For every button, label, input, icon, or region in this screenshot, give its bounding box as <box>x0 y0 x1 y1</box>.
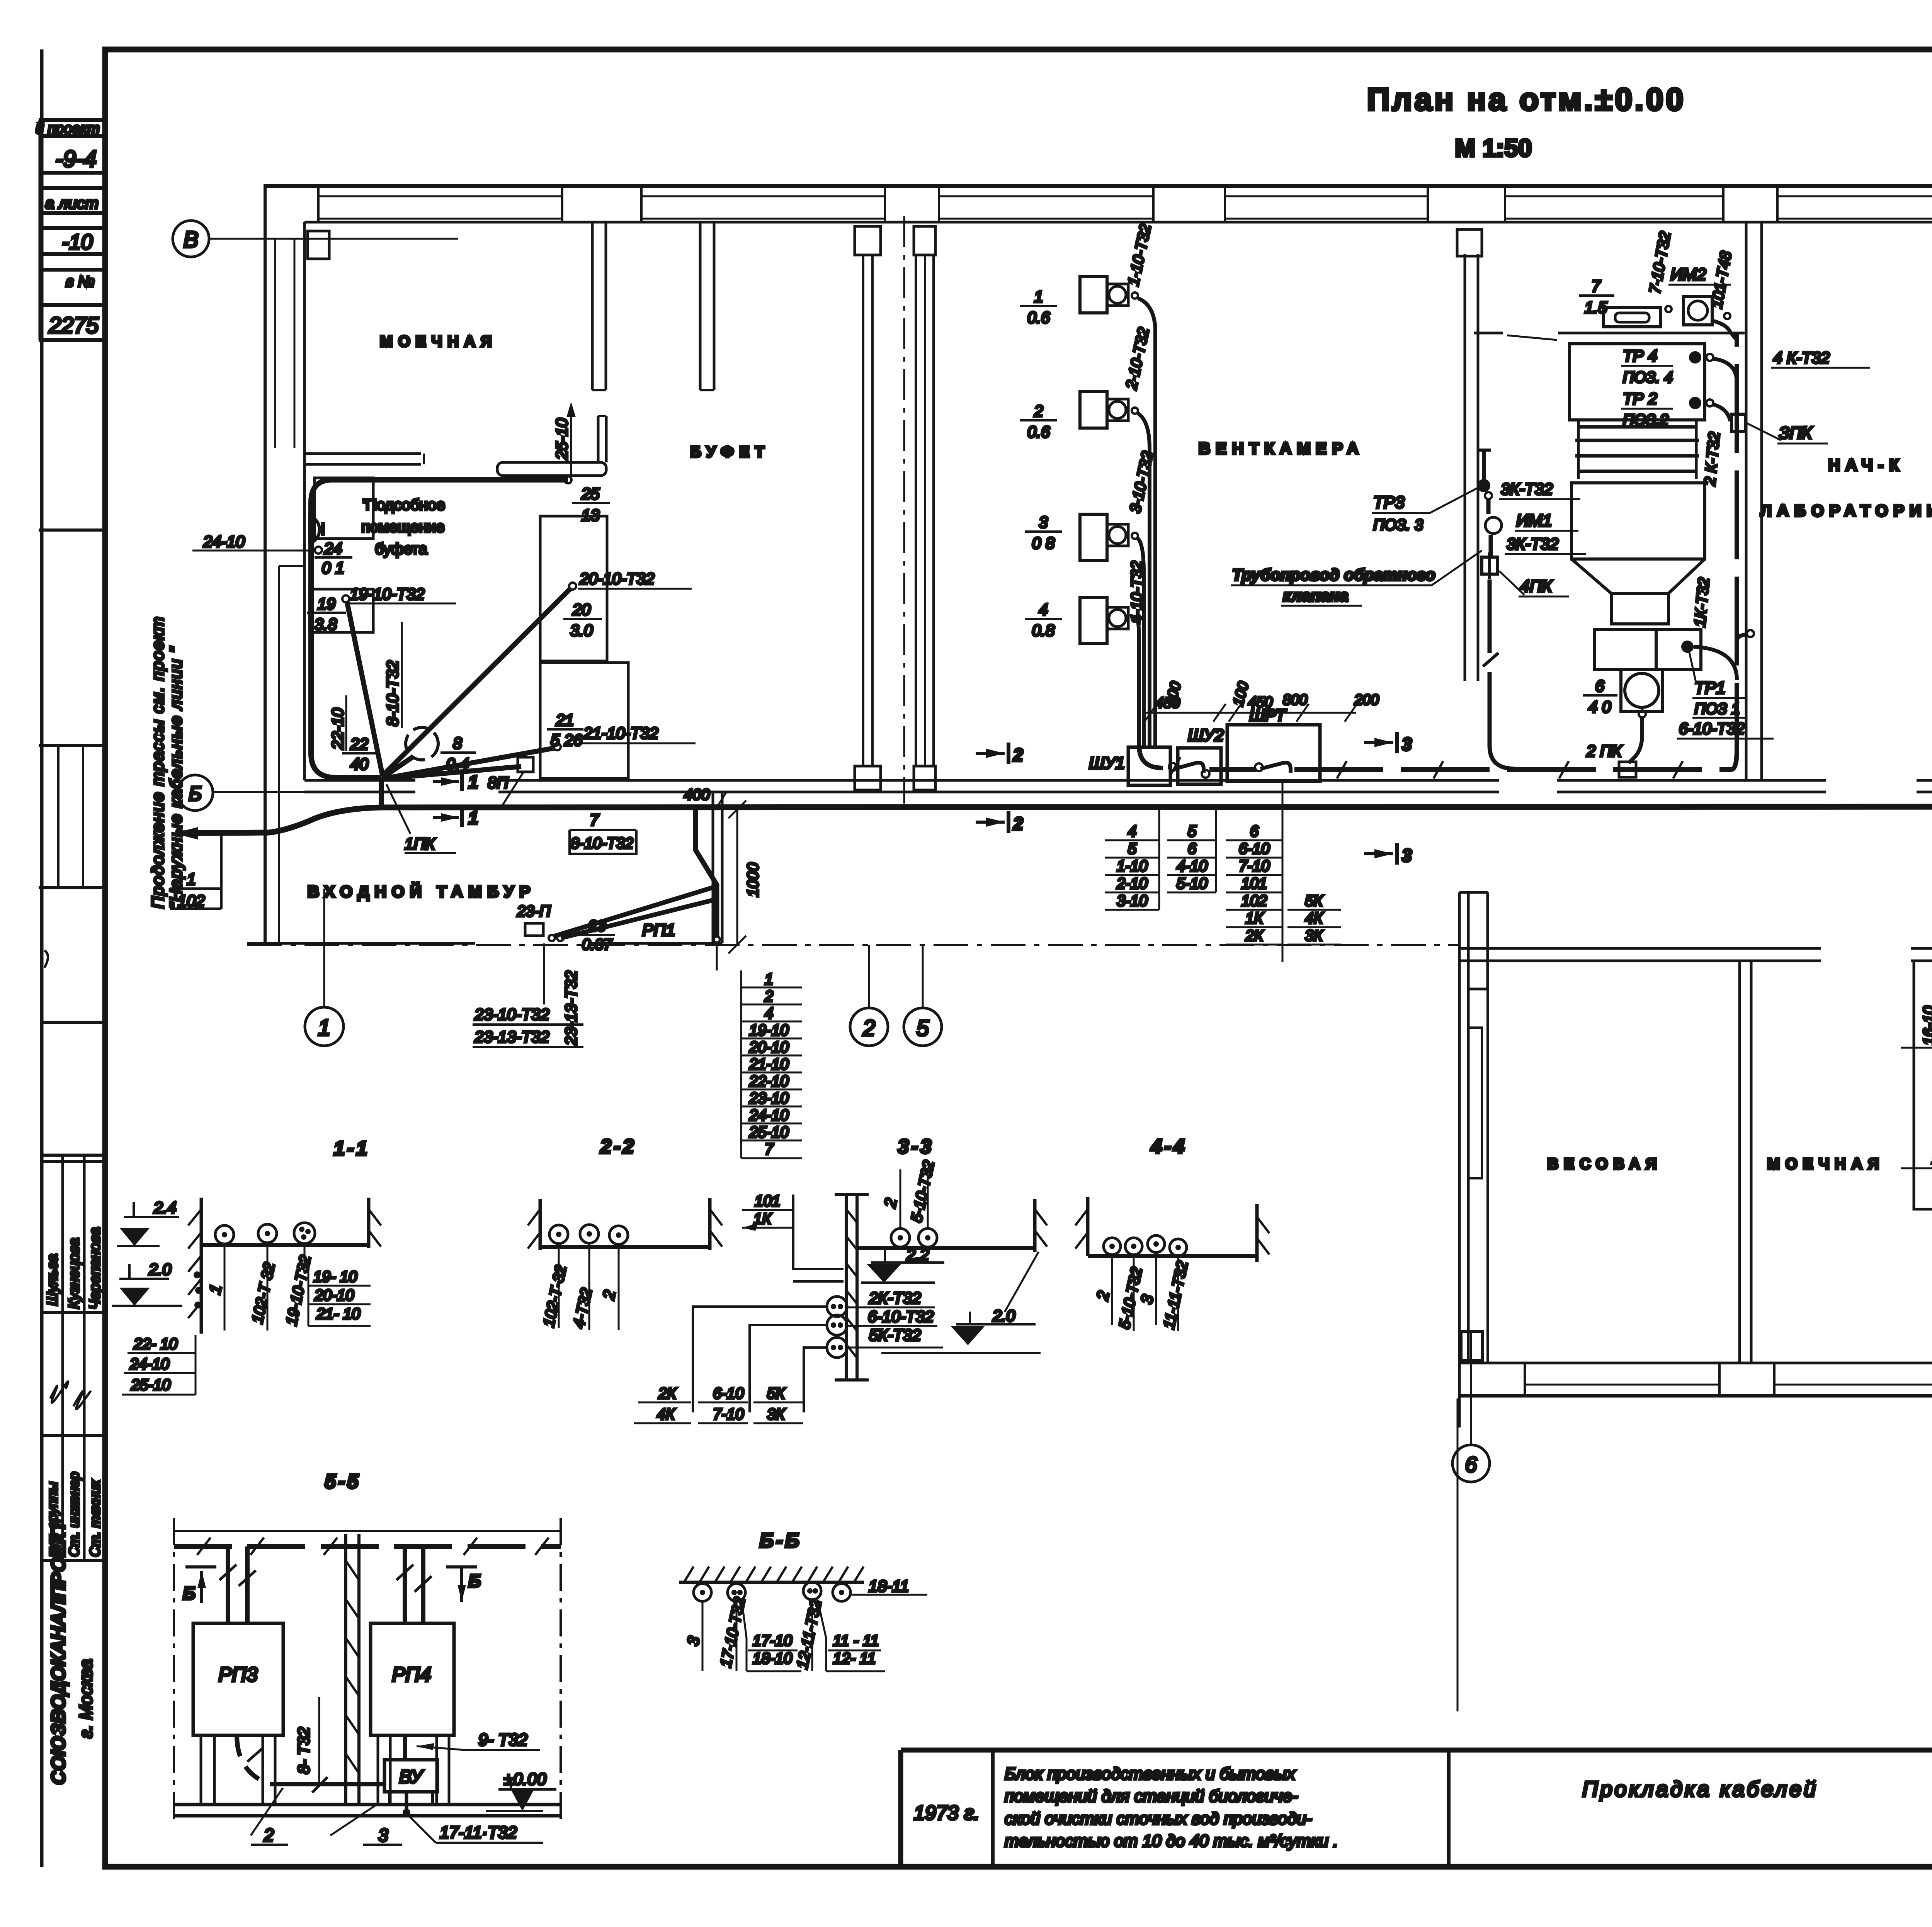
ceiling hatched <box>679 1581 864 1584</box>
svg-text:ИМ1: ИМ1 <box>1516 511 1552 530</box>
svg-text:ТР1: ТР1 <box>1694 678 1726 697</box>
riser circles w/ two dots <box>827 1297 847 1317</box>
svg-text:3-3: 3-3 <box>898 1135 934 1158</box>
svg-text:23: 23 <box>588 918 606 935</box>
svg-text:'Подсобное: 'Подсобное <box>362 496 445 513</box>
svg-text:7-10: 7-10 <box>713 1406 744 1423</box>
1000 dim vertical <box>736 809 738 945</box>
lower block bottom wall <box>1459 1362 1932 1365</box>
cable circles <box>215 1225 234 1244</box>
svg-text:3К: 3К <box>1305 927 1323 944</box>
section mark 1 lower <box>433 816 459 819</box>
tambour bottom wall <box>247 942 475 945</box>
hub to 1ПК and 8П <box>383 756 413 778</box>
svg-text:ВУ: ВУ <box>399 1767 424 1787</box>
ШУ2 cabinet <box>1178 748 1221 784</box>
svg-text:0.6: 0.6 <box>1027 423 1050 441</box>
svg-text:7: 7 <box>765 1141 774 1158</box>
stamp column left <box>36 49 105 1867</box>
svg-text:0 1: 0 1 <box>322 559 344 577</box>
svg-text:3: 3 <box>1402 845 1412 865</box>
svg-text:4: 4 <box>1039 600 1048 619</box>
right riser cable with corner <box>1731 332 1737 770</box>
right wall hatched <box>367 1198 371 1248</box>
svg-text:40: 40 <box>350 755 369 773</box>
svg-text:5-10: 5-10 <box>1177 875 1207 892</box>
svg-text:4К: 4К <box>657 1406 675 1423</box>
node 19 + label <box>342 595 349 602</box>
svg-text:Б: Б <box>189 783 202 805</box>
axis 2 <box>850 1008 888 1046</box>
svg-text:23-10-Т32: 23-10-Т32 <box>474 1005 549 1023</box>
svg-text:23-П: 23-П <box>517 903 551 920</box>
fan unit 3 <box>1080 514 1107 561</box>
svg-text:4-10: 4-10 <box>1177 858 1207 875</box>
svg-text:8-10-Т32: 8-10-Т32 <box>383 661 401 726</box>
fold crease lines <box>1457 1399 1459 1711</box>
ТР3 dot + stem <box>1482 450 1486 483</box>
svg-text:Б: Б <box>183 1583 196 1603</box>
svg-text:5К: 5К <box>1305 892 1323 909</box>
svg-text:102: 102 <box>178 892 205 910</box>
svg-text:Шульга: Шульга <box>44 1254 61 1306</box>
svg-text:23-13-Т32: 23-13-Т32 <box>562 970 580 1046</box>
floor line <box>201 1243 369 1247</box>
svg-text:19-10: 19-10 <box>749 1022 789 1039</box>
п marks on cable <box>1171 757 1683 778</box>
svg-text:5 26: 5 26 <box>551 731 582 749</box>
svg-text:20-10: 20-10 <box>749 1039 789 1056</box>
top wall inner line <box>304 221 1932 224</box>
svg-text:ПОЗ. 4: ПОЗ. 4 <box>1623 369 1673 386</box>
svg-text:ТР3: ТР3 <box>1373 493 1405 512</box>
3К-Т32 node <box>1485 492 1492 499</box>
top wall outer line <box>264 184 1932 188</box>
svg-text:1973 г.: 1973 г. <box>914 1802 980 1824</box>
tables under corridor <box>1116 823 1323 944</box>
damper <box>1604 308 1661 327</box>
svg-text:Продолжение трассы см. прое: Продолжение трассы см. проект <box>148 616 167 909</box>
axis Б <box>177 775 213 811</box>
floor <box>857 1246 1036 1250</box>
fan bottom block <box>1594 629 1656 670</box>
svg-text:3: 3 <box>378 1825 388 1845</box>
svg-text:ской очистки сточных вод п: ской очистки сточных вод производи- <box>1005 1809 1312 1828</box>
svg-text:2: 2 <box>1013 745 1023 765</box>
diagonal cables to РП1 <box>553 887 716 936</box>
bench left <box>1914 961 1932 1209</box>
svg-text:5К: 5К <box>767 1385 786 1402</box>
svg-text:буфета: буфета <box>375 540 427 557</box>
svg-text:20-10: 20-10 <box>314 1287 354 1304</box>
svg-text:1: 1 <box>468 808 478 828</box>
svg-text:0.6: 0.6 <box>1027 308 1050 326</box>
svg-text:25-10: 25-10 <box>131 1376 170 1393</box>
floor <box>174 1803 561 1806</box>
leaders 2, 3, 17-11-Т32 <box>251 1788 283 1835</box>
svg-text:2275: 2275 <box>48 313 99 338</box>
corridor main cable <box>176 807 1932 833</box>
svg-text:18-10: 18-10 <box>753 1650 792 1667</box>
svg-text:СОЮЗВОДОКАНАЛПРОЕКТ: СОЮЗВОДОКАНАЛПРОЕКТ <box>48 1519 69 1785</box>
svg-text:Кузнецова: Кузнецова <box>66 1238 82 1309</box>
svg-text:1: 1 <box>765 971 773 988</box>
svg-text:ПОЗ 1: ПОЗ 1 <box>1694 700 1740 717</box>
svg-text:2 ПК: 2 ПК <box>1586 742 1622 760</box>
lower block left wall <box>1458 892 1461 1427</box>
svg-text:й проект: й проект <box>36 121 100 137</box>
svg-text:6-10: 6-10 <box>1239 840 1270 857</box>
svg-text:МОЕЧНАЯ: МОЕЧНАЯ <box>1767 1156 1884 1173</box>
svg-text:24-10: 24-10 <box>129 1356 169 1373</box>
svg-text:24-10: 24-10 <box>749 1107 789 1124</box>
svg-text:8П: 8П <box>488 773 509 792</box>
svg-text:1: 1 <box>1034 287 1043 306</box>
section mark 2 lower <box>976 821 1005 824</box>
bellows <box>1575 427 1699 471</box>
circle node 25 <box>565 476 571 483</box>
svg-text:5: 5 <box>1188 823 1197 840</box>
svg-text:21- 10: 21- 10 <box>316 1305 360 1322</box>
svg-text:2: 2 <box>862 1016 875 1041</box>
svg-text:РП1: РП1 <box>642 921 675 940</box>
leaders <box>224 1244 226 1331</box>
fan unit 4 <box>1080 597 1107 644</box>
svg-text:2: 2 <box>1013 814 1023 834</box>
svg-text:5К-Т32: 5К-Т32 <box>869 1326 921 1344</box>
fan unit 2 <box>1080 392 1107 428</box>
svg-text:1: 1 <box>468 772 478 792</box>
svg-text:2: 2 <box>764 988 773 1005</box>
svg-text:3.0: 3.0 <box>570 621 593 639</box>
svg-text:2К: 2К <box>658 1385 677 1402</box>
svg-text:19-10-Т32: 19-10-Т32 <box>350 585 425 603</box>
lower block partitions <box>1738 961 1741 1363</box>
svg-text:Ст. техник: Ст. техник <box>87 1479 103 1557</box>
1ПК circle <box>406 727 438 760</box>
svg-text:3-10: 3-10 <box>1117 892 1148 909</box>
svg-text:2: 2 <box>1034 402 1043 420</box>
svg-text:400: 400 <box>684 786 710 803</box>
svg-text:В: В <box>184 227 199 252</box>
svg-text:24: 24 <box>324 539 342 557</box>
ШРТ cabinet <box>1227 725 1320 781</box>
svg-text:ЛАБОРАТОРИИ: ЛАБОРАТОРИИ <box>1760 501 1932 520</box>
svg-text:3К-Т32: 3К-Т32 <box>1507 535 1558 553</box>
svg-text:6: 6 <box>1595 677 1604 695</box>
leaders + labels <box>702 1601 704 1671</box>
cable 25 along Подсобное top <box>311 480 568 778</box>
svg-text:21-10: 21-10 <box>749 1056 789 1073</box>
svg-text:4К: 4К <box>1305 910 1323 927</box>
svg-text:ВЕНТКАМЕРА: ВЕНТКАМЕРА <box>1199 439 1364 457</box>
svg-text:ШУ2: ШУ2 <box>1188 726 1224 745</box>
svg-text:11 - 11: 11 - 11 <box>833 1632 879 1649</box>
svg-text:1ПК: 1ПК <box>405 834 436 853</box>
section mark 2 upper <box>976 752 1005 755</box>
svg-text:БУФЕТ: БУФЕТ <box>690 444 770 461</box>
partition x4519 <box>1745 222 1748 780</box>
svg-text:3К: 3К <box>767 1406 786 1423</box>
svg-text:План на отм.±0.00: План на отм.±0.00 <box>1367 82 1685 117</box>
bench under Подсобное <box>310 589 373 632</box>
svg-text:ВХОДНОЙ ТАМБУР: ВХОДНОЙ ТАМБУР <box>308 882 536 901</box>
Венткамера right partition <box>1464 254 1466 681</box>
svg-text:25-10: 25-10 <box>553 418 571 460</box>
Буфет bench rects <box>540 516 607 661</box>
svg-text:17-11·Т32: 17-11·Т32 <box>440 1823 517 1842</box>
svg-text:800: 800 <box>1283 692 1307 708</box>
hub down to corridor cable <box>379 777 384 807</box>
dashed cable from ИМ1 down <box>1488 499 1515 769</box>
boundary dash-dot <box>173 1518 175 1825</box>
svg-text:Трубопровод обратного: Трубопровод обратного <box>1232 566 1435 584</box>
РП1 cable list table <box>749 971 789 1158</box>
left outer wall <box>264 186 267 943</box>
Подсобное cabinet <box>315 478 373 539</box>
svg-text:в №: в № <box>66 273 95 290</box>
svg-text:ПОЗ. 3: ПОЗ. 3 <box>1373 517 1423 534</box>
top wall pier ticks <box>318 186 1932 222</box>
svg-text:1: 1 <box>318 1015 330 1040</box>
svg-text:6: 6 <box>1188 840 1197 857</box>
svg-text:6-10-Т32: 6-10-Т32 <box>868 1307 934 1325</box>
hopper <box>1571 483 1705 559</box>
svg-text:4 0: 4 0 <box>1588 698 1611 716</box>
riser hatched wall <box>845 1195 848 1380</box>
svg-text:22- 10: 22- 10 <box>133 1336 177 1353</box>
svg-text:18-11: 18-11 <box>869 1577 909 1595</box>
axis В <box>173 221 209 257</box>
svg-text:2: 2 <box>264 1825 274 1845</box>
svg-text:6-10: 6-10 <box>713 1385 744 1402</box>
svg-text:1-10: 1-10 <box>1117 858 1148 875</box>
ШУ1 cabinet <box>1128 747 1170 785</box>
svg-text:2.2: 2.2 <box>906 1246 929 1264</box>
left wall hatched <box>200 1198 203 1334</box>
svg-text:2К-Т32: 2К-Т32 <box>869 1289 921 1307</box>
ВУ box <box>384 1760 437 1792</box>
circles <box>1104 1238 1121 1255</box>
lower block top wall <box>1459 947 1821 950</box>
svg-text:тельностью от 10 до 40 тыс. м: тельностью от 10 до 40 тыс. м³/сутки . <box>1005 1832 1338 1851</box>
axis 1 <box>305 1007 344 1046</box>
svg-text:17-10: 17-10 <box>753 1632 792 1649</box>
ИМ1 <box>1485 517 1502 534</box>
title block <box>901 1750 1932 1913</box>
РП1 riser cable <box>696 808 717 937</box>
svg-text:Черепанова: Черепанова <box>87 1227 103 1310</box>
svg-text:20-10-Т32: 20-10-Т32 <box>579 569 655 588</box>
svg-text:2.0: 2.0 <box>992 1307 1015 1325</box>
svg-text:Блок производственных и быт: Блок производственных и бытовых <box>1005 1764 1296 1783</box>
svg-text:19- 10: 19- 10 <box>313 1268 357 1285</box>
horizontal cable РП3 to ВУ <box>270 1782 386 1786</box>
top wall window sill lines <box>318 195 562 197</box>
inter-cabinet cable y1992 with hooks <box>1169 763 1177 771</box>
svg-text:г. Москва: г. Москва <box>76 1659 96 1738</box>
svg-text:6: 6 <box>1250 823 1259 840</box>
svg-text:23-10: 23-10 <box>749 1090 789 1107</box>
svg-text:ВЕСОВАЯ: ВЕСОВАЯ <box>1547 1156 1662 1173</box>
node 21 + cable <box>554 743 561 750</box>
signatures scribbles <box>50 1382 68 1403</box>
drops from cable to cabinets <box>228 1546 247 1623</box>
cable 19 diagonal <box>347 602 383 776</box>
svg-text:0.8: 0.8 <box>1032 621 1055 639</box>
svg-text:22: 22 <box>350 735 369 753</box>
svg-text:5-5: 5-5 <box>325 1470 361 1493</box>
svg-text:3: 3 <box>1039 513 1048 531</box>
cable from fan bottom to 2ПК <box>1639 710 1646 717</box>
svg-text:МОЕЧНАЯ: МОЕЧНАЯ <box>380 333 497 350</box>
axis 6 <box>1452 1445 1490 1482</box>
svg-text:8: 8 <box>453 734 462 752</box>
svg-text:2.4: 2.4 <box>153 1198 176 1217</box>
svg-text:-10: -10 <box>62 230 93 254</box>
svg-text:1К: 1К <box>1245 910 1264 927</box>
sink symbol Подсобное <box>310 514 320 544</box>
РП4 cabinet <box>371 1623 454 1735</box>
cable bundle down to ШУ1 <box>1138 298 1155 746</box>
svg-text:помещений для станций биоло: помещений для станций биологиче- <box>1005 1787 1298 1806</box>
south wall of upper rooms (corridor north) <box>304 779 415 782</box>
svg-text:21: 21 <box>556 711 574 729</box>
corridor axis dash-dot <box>247 944 1461 946</box>
svg-text:22-10: 22-10 <box>328 708 347 750</box>
left wall <box>539 1199 542 1250</box>
svg-text:7: 7 <box>590 811 599 829</box>
svg-text:Прокладка кабелей: Прокладка кабелей <box>1582 1777 1818 1801</box>
svg-text:3К-Т32: 3К-Т32 <box>1501 480 1553 498</box>
fan unit 1 <box>1080 277 1107 313</box>
svg-text:450: 450 <box>1248 694 1272 710</box>
section mark 3 upper <box>1364 741 1393 744</box>
svg-text:0 8: 0 8 <box>1032 534 1055 552</box>
svg-text:1000: 1000 <box>745 863 762 897</box>
cable ИМ2 to riser <box>1712 321 1737 340</box>
right wall <box>1255 1204 1259 1262</box>
svg-text:4-4: 4-4 <box>1150 1135 1187 1158</box>
svg-text:М 1:50: М 1:50 <box>1455 134 1532 162</box>
svg-text:клапана: клапана <box>1283 586 1349 605</box>
svg-text:19: 19 <box>318 595 336 613</box>
svg-text:2К: 2К <box>1245 927 1264 944</box>
left wall <box>1086 1197 1090 1256</box>
svg-text:2-2: 2-2 <box>600 1135 636 1158</box>
svg-text:6-10-Т32: 6-10-Т32 <box>1679 719 1745 737</box>
svg-text:5: 5 <box>917 1016 929 1041</box>
left wall recess <box>278 566 280 943</box>
svg-text:20: 20 <box>572 600 591 619</box>
РП3 cabinet <box>193 1623 283 1735</box>
section mark 3 lower <box>1364 852 1393 855</box>
svg-text:ШУ1: ШУ1 <box>1089 754 1125 773</box>
svg-text:4ПК: 4ПК <box>1520 577 1553 596</box>
svg-text:16-10: 16-10 <box>1920 1006 1932 1045</box>
svg-text:-9-4: -9-4 <box>55 146 97 172</box>
middle dividers <box>42 1021 105 1024</box>
svg-text:24-10: 24-10 <box>203 532 245 551</box>
svg-text:101: 101 <box>755 1193 781 1210</box>
svg-text:22-10: 22-10 <box>749 1073 789 1090</box>
circles <box>549 1225 568 1244</box>
svg-text:РП4: РП4 <box>392 1664 431 1686</box>
main title <box>1367 82 1685 162</box>
partition Подсобное/Моечная <box>304 452 421 455</box>
svg-text:4 К-Т32: 4 К-Т32 <box>1773 348 1830 367</box>
svg-text:4: 4 <box>1128 823 1136 840</box>
ИМ2 <box>1684 296 1712 325</box>
svg-text:1-1: 1-1 <box>333 1137 369 1160</box>
svg-text:ЗПК: ЗПК <box>1779 423 1813 442</box>
svg-text:8-10-Т32: 8-10-Т32 <box>571 835 633 852</box>
cable line <box>174 1544 561 1549</box>
svg-text:3.8: 3.8 <box>315 615 337 633</box>
svg-text:200: 200 <box>1354 692 1379 708</box>
svg-text:6: 6 <box>1465 1452 1477 1477</box>
svg-text:1: 1 <box>187 870 196 888</box>
svg-text:23-13-Т32: 23-13-Т32 <box>474 1028 549 1046</box>
svg-text:а лист: а лист <box>45 194 99 212</box>
right wall <box>708 1198 712 1250</box>
svg-text:0.37: 0.37 <box>582 936 613 953</box>
svg-text:7-10: 7-10 <box>1239 858 1270 875</box>
svg-text:2-10: 2-10 <box>1116 875 1148 892</box>
2ПК connector <box>1619 762 1636 777</box>
floor <box>1088 1254 1258 1258</box>
svg-text:8- Т32: 8- Т32 <box>294 1727 313 1774</box>
svg-text:12- 11: 12- 11 <box>833 1650 876 1667</box>
floor <box>540 1245 710 1249</box>
svg-text:2.0: 2.0 <box>148 1260 172 1278</box>
svg-text:"Наружные кабельные линии ": "Наружные кабельные линии " <box>167 646 185 909</box>
svg-text:102: 102 <box>1242 892 1267 909</box>
circles <box>891 1229 910 1247</box>
svg-text:4: 4 <box>765 1005 773 1022</box>
svg-text:5: 5 <box>1128 840 1137 857</box>
Буфет/Вент wall pilasters <box>855 226 881 255</box>
svg-text:ТР 4: ТР 4 <box>1623 347 1657 365</box>
dimension chain 450/100/450/100/800/200 <box>1142 712 1356 714</box>
svg-text:25-10: 25-10 <box>749 1124 789 1141</box>
section mark 1 upper <box>433 780 459 783</box>
svg-text:21-10-Т32: 21-10-Т32 <box>583 724 658 742</box>
3ПК <box>1731 414 1745 432</box>
arrow up from node 25 <box>570 410 572 480</box>
Моечная/Буфет partition stub <box>591 222 594 390</box>
right wall <box>1033 1199 1037 1252</box>
svg-text:ТР 2: ТР 2 <box>1623 389 1657 408</box>
svg-text:НАЧ-К: НАЧ-К <box>1828 456 1905 474</box>
axis 5 <box>904 1008 942 1046</box>
circles <box>694 1584 711 1601</box>
cable from ТР1 dot to riser <box>1694 647 1737 680</box>
svg-text:7: 7 <box>1591 277 1601 295</box>
columns top wall <box>308 231 329 259</box>
svg-text:3: 3 <box>1402 734 1412 754</box>
ИМ2 room partition <box>1474 332 1503 335</box>
4ПК connector <box>1482 557 1497 574</box>
svg-text:Б: Б <box>468 1571 481 1591</box>
svg-text:101: 101 <box>1242 875 1267 892</box>
svg-text:Б-Б: Б-Б <box>760 1529 802 1552</box>
svg-text:ИМ2: ИМ2 <box>1670 265 1706 284</box>
connector steps to tables <box>693 1307 827 1412</box>
svg-text:25: 25 <box>581 484 600 503</box>
node 20 + diagonal cable <box>569 583 576 590</box>
hatched column <box>344 1534 347 1805</box>
